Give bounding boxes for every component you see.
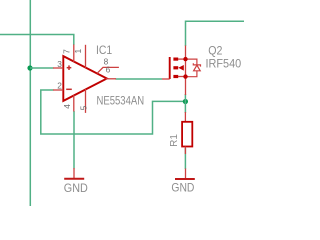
pin 4 lead [73, 95, 75, 112]
node junction dot at non-inverting input branch [27, 65, 32, 70]
wire feedback net pin 2 to source node [41, 90, 186, 134]
svg-text:6: 6 [106, 65, 111, 75]
svg-text:4: 4 [62, 104, 72, 109]
pin 1 lead [85, 45, 87, 68]
ground symbol right lead [185, 169, 187, 180]
transistor Q2 gate lead [162, 78, 170, 80]
ground symbol right bar [175, 178, 195, 180]
svg-text:NE5534AN: NE5534AN [97, 94, 145, 108]
svg-text:3: 3 [57, 59, 62, 69]
body diode branch wiring [186, 59, 197, 77]
wire to op-amp pin 3 [30, 67, 54, 69]
wire R1 to GND [184, 148, 186, 169]
pin 2 lead [53, 89, 63, 91]
resistor R1 top lead [184, 112, 186, 122]
pin 6 output lead [106, 78, 117, 80]
svg-text:7: 7 [61, 49, 71, 54]
wire op-amp pin 4 to GND [73, 111, 75, 169]
body diode cathode bar [193, 63, 200, 66]
svg-text:IRF540: IRF540 [206, 57, 242, 71]
resistor R1 body [182, 122, 192, 147]
wire op-amp output to MOSFET gate [116, 78, 163, 80]
body diode D1 triangle [194, 65, 201, 71]
wire vertical left net from top edge to bottom edge [29, 0, 31, 206]
pin 7 lead [73, 45, 75, 63]
resistor R1 bottom lead [184, 147, 186, 155]
node junction dot at MOSFET source / R1 [183, 99, 188, 104]
svg-text:GND: GND [64, 181, 88, 195]
transistor Q2 bulk arrow [178, 65, 184, 71]
node source junction dot [183, 74, 187, 78]
op-amp minus symbol [66, 88, 72, 90]
pin 3 lead [53, 67, 63, 69]
wire horizontal upper-left to op-amp pin 7 [0, 35, 74, 46]
transistor Q2 drain connector [178, 58, 186, 60]
svg-text:5: 5 [79, 105, 89, 110]
pin 5 lead [85, 89, 87, 113]
svg-text:Q2: Q2 [208, 43, 222, 57]
ground symbol left bar [64, 178, 84, 180]
svg-text:GND: GND [171, 181, 194, 195]
ground symbol left lead [73, 168, 75, 179]
transistor Q2 gate bar [169, 57, 171, 79]
wire MOSFET source to R1 [184, 94, 186, 113]
pin 8 lead [97, 67, 119, 73]
transistor Q2 drain-source vertical [185, 46, 187, 96]
svg-text:1: 1 [73, 49, 83, 54]
transistor Q2 source connector [178, 76, 186, 78]
node drain junction dot [183, 57, 187, 61]
svg-text:R1: R1 [169, 134, 180, 147]
op-amp plus symbol [67, 65, 72, 70]
svg-text:IC1: IC1 [96, 43, 112, 57]
wire drain net to right edge [186, 21, 245, 46]
svg-text:2: 2 [57, 80, 62, 90]
transistor Q2 channel bars [173, 58, 178, 79]
op-amp U1 triangle body [63, 56, 107, 101]
